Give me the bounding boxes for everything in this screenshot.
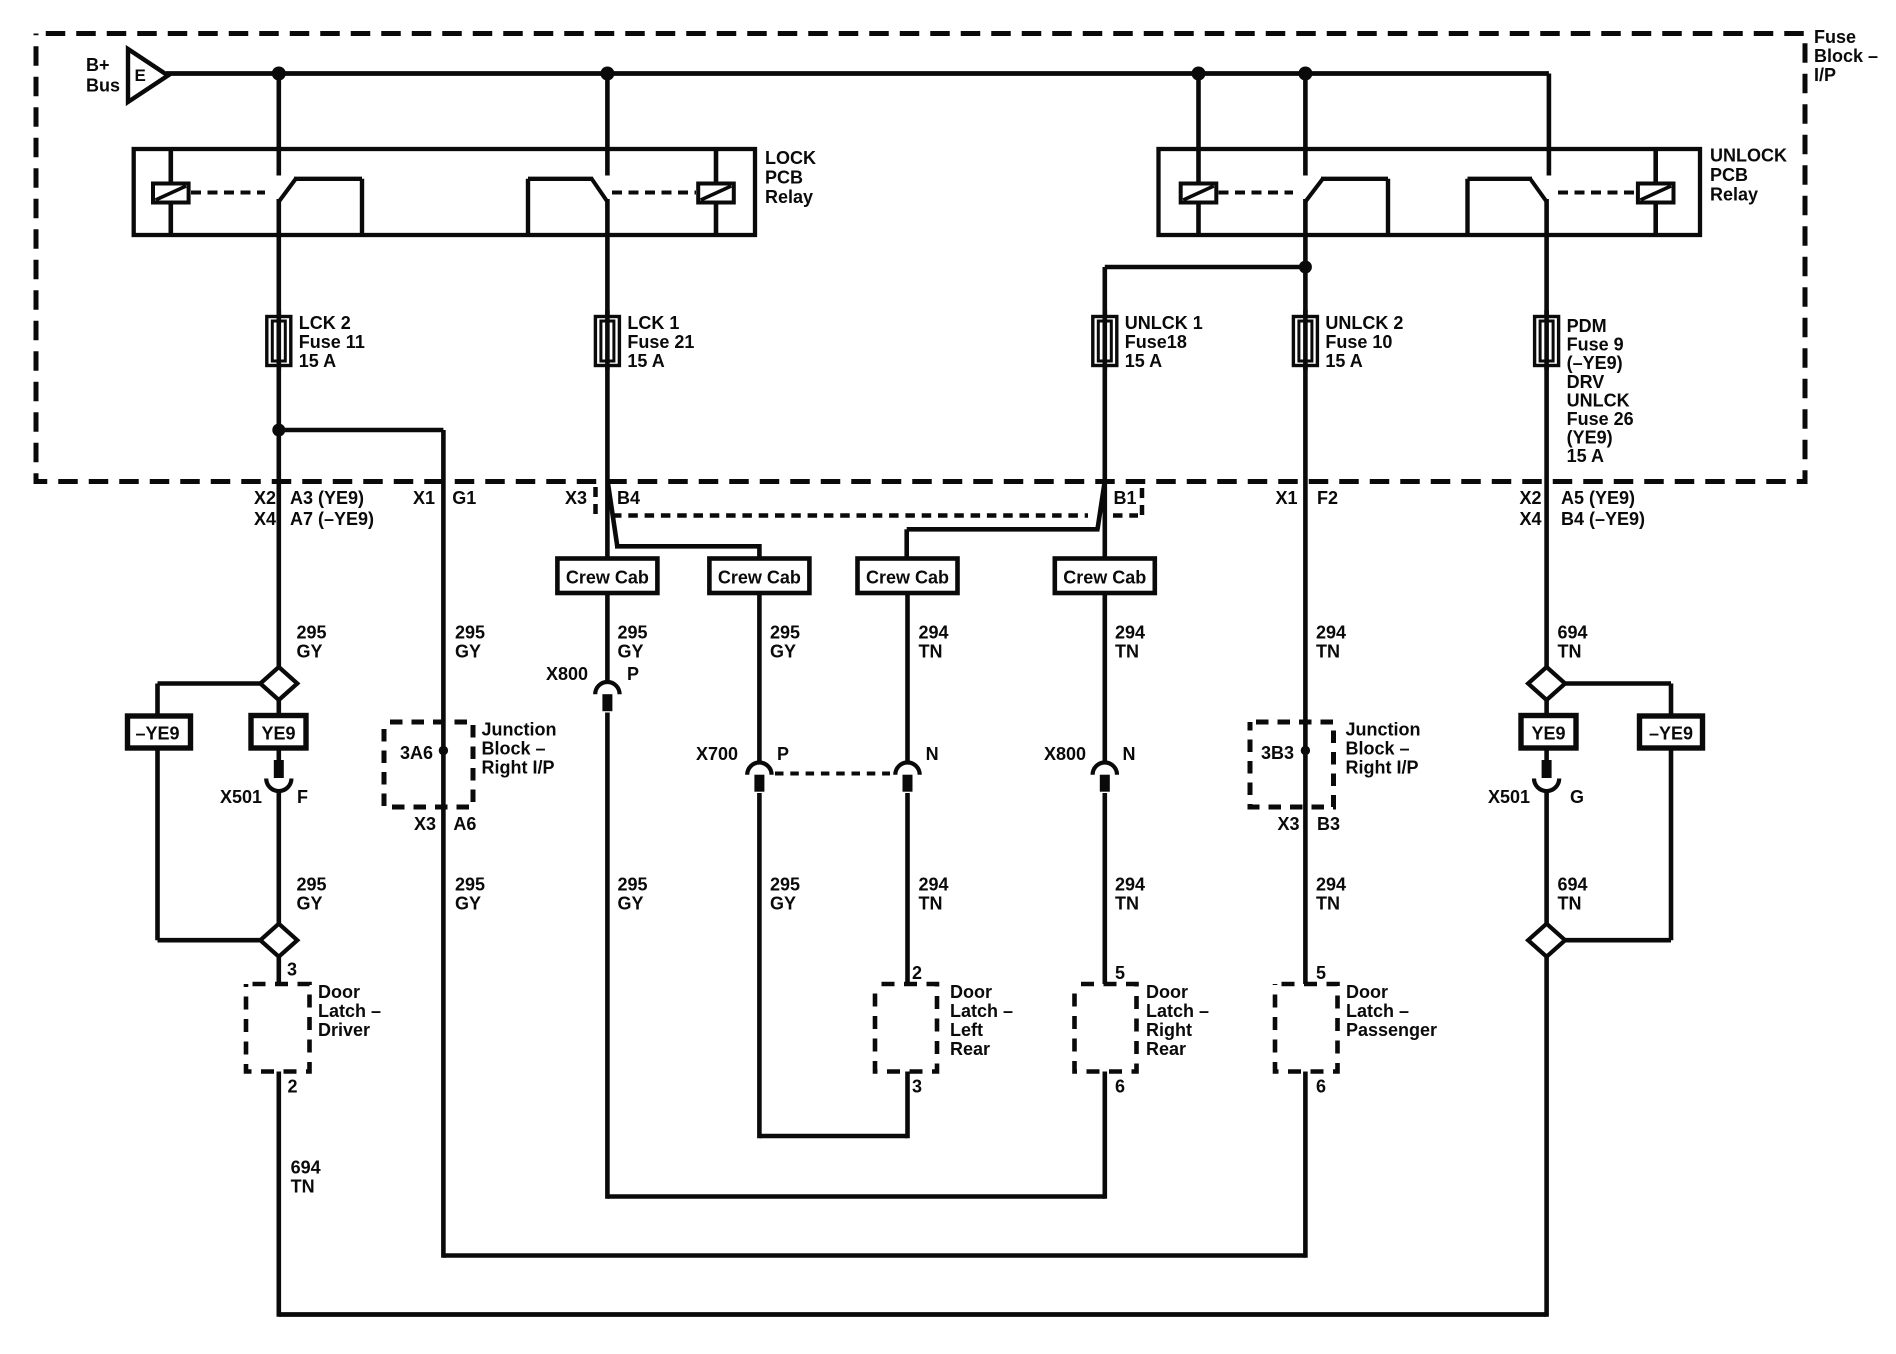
wire UNLOCK coil2 feed xyxy=(1653,149,1658,235)
svg-text:TN: TN xyxy=(1115,642,1139,662)
wire B+ bus xyxy=(166,71,1549,76)
svg-text:I/P: I/P xyxy=(1814,65,1836,85)
svg-text:694: 694 xyxy=(1558,875,1588,895)
svg-text:B4 (–YE9): B4 (–YE9) xyxy=(1561,509,1645,529)
svg-text:X501: X501 xyxy=(220,787,262,807)
relay LOCK coil1 xyxy=(153,184,189,203)
svg-text:3A6: 3A6 xyxy=(400,743,433,763)
wire S4 down to rail4 xyxy=(1544,957,1549,1317)
svg-text:X1: X1 xyxy=(1275,488,1297,508)
pin label 6 right rear xyxy=(1115,1077,1125,1097)
svg-text:294: 294 xyxy=(1316,623,1346,643)
svg-text:A5 (YE9): A5 (YE9) xyxy=(1561,488,1635,508)
splice diamond S2 xyxy=(260,924,297,957)
wire X501 G down to diamond S4 xyxy=(1544,792,1549,926)
svg-text:Fuse 10: Fuse 10 xyxy=(1325,332,1392,352)
svg-text:Junction: Junction xyxy=(482,720,557,740)
svg-text:6: 6 xyxy=(1316,1077,1326,1097)
relay LOCK switch2 arm xyxy=(528,179,607,236)
crew cab box 2 xyxy=(709,559,809,594)
crew cab box 1 xyxy=(557,559,657,594)
svg-text:15 A: 15 A xyxy=(1325,351,1362,371)
svg-text:LOCK: LOCK xyxy=(765,148,816,168)
fuse LCK 1 label xyxy=(627,313,694,371)
wire branch -YE9 left lower xyxy=(158,748,261,940)
svg-text:G: G xyxy=(1570,787,1584,807)
dashed link switch4 to UNLOCK coil2 xyxy=(1558,191,1637,195)
svg-text:TN: TN xyxy=(291,1177,315,1197)
label 3B3 xyxy=(1261,743,1294,763)
svg-text:Latch –: Latch – xyxy=(950,1001,1013,1021)
relay LOCK PCB box xyxy=(134,149,755,235)
wire branch to UNLCK1 fuse xyxy=(1105,267,1306,317)
fuse PDM label xyxy=(1567,316,1634,466)
crew cab box 4 xyxy=(1055,559,1155,594)
pin label 2 left rear xyxy=(912,963,922,983)
svg-text:GY: GY xyxy=(770,894,796,914)
relay UNLOCK switch4 arm xyxy=(1468,179,1547,236)
svg-text:GY: GY xyxy=(455,642,481,662)
wire crew cab4 to X800 N xyxy=(1103,593,1108,765)
wire branch -YE9 left upper xyxy=(158,684,261,717)
svg-text:Fuse 9: Fuse 9 xyxy=(1567,335,1624,355)
svg-text:B3: B3 xyxy=(1317,814,1340,834)
relay LOCK coil2 xyxy=(698,184,734,203)
fuse UNLCK 2 label xyxy=(1325,313,1403,371)
svg-text:Crew Cab: Crew Cab xyxy=(566,568,649,588)
svg-text:TN: TN xyxy=(1115,894,1139,914)
junction dot G1 branch xyxy=(272,424,285,437)
svg-text:Crew Cab: Crew Cab xyxy=(718,568,801,588)
svg-text:F2: F2 xyxy=(1317,488,1338,508)
wire UNLOCK coil1 feed from bus xyxy=(1196,74,1201,236)
svg-text:Door: Door xyxy=(1346,982,1388,1002)
junction dot UNLCK branch xyxy=(1299,261,1312,274)
connector X501 G xyxy=(1534,760,1559,791)
label N c5 xyxy=(926,744,939,764)
svg-text:3: 3 xyxy=(912,1077,922,1097)
splice diamond S3 xyxy=(1528,667,1565,700)
svg-text:YE9: YE9 xyxy=(261,724,295,744)
wire X800 P down to rail2 xyxy=(605,713,610,1199)
wire switch4 output to fuse PDM xyxy=(1544,199,1549,317)
svg-text:YE9: YE9 xyxy=(1531,724,1565,744)
svg-text:Door: Door xyxy=(1146,982,1188,1002)
svg-text:295: 295 xyxy=(770,623,800,643)
wire crew cab3 to X700 N xyxy=(905,593,910,765)
wire A6 down to rail3 xyxy=(441,807,446,1258)
svg-text:P: P xyxy=(777,744,789,764)
svg-text:Fuse18: Fuse18 xyxy=(1125,332,1187,352)
wire switch3 output xyxy=(1303,199,1308,317)
svg-text:15 A: 15 A xyxy=(1125,351,1162,371)
svg-text:PCB: PCB xyxy=(765,168,803,188)
box -YE9 right xyxy=(1640,716,1703,748)
wire B1 to crew cab 4 xyxy=(1103,482,1108,561)
wire label 295 GY c3 r1 xyxy=(618,623,648,662)
junction block 3A6 wire xyxy=(441,722,446,807)
svg-text:PDM: PDM xyxy=(1567,316,1607,336)
connector X800 P xyxy=(595,682,619,711)
svg-text:Latch –: Latch – xyxy=(1346,1001,1409,1021)
fuse block I/P dashed border xyxy=(36,34,1805,482)
junction dot 3A6 xyxy=(439,746,448,755)
wire switch4 input from bus xyxy=(1547,74,1552,176)
svg-text:295: 295 xyxy=(455,623,485,643)
wire label 694 TN c8 r1 xyxy=(1558,623,1588,662)
relay UNLOCK coil1 xyxy=(1181,184,1217,203)
wire switch2 input from bus xyxy=(605,74,610,176)
fuse PDM xyxy=(1535,310,1559,370)
svg-text:295: 295 xyxy=(770,875,800,895)
connector X700 P xyxy=(747,763,771,792)
door latch right rear label xyxy=(1146,982,1209,1059)
svg-text:X1: X1 xyxy=(413,488,435,508)
svg-text:TN: TN xyxy=(1558,894,1582,914)
svg-text:–YE9: –YE9 xyxy=(1649,724,1693,744)
wire B1 branch diagonal xyxy=(907,484,1105,560)
box YE9 left xyxy=(251,716,306,749)
pin label X1 F2 xyxy=(1275,488,1338,508)
pin label X3 B4 xyxy=(565,488,640,508)
label X501 G xyxy=(1488,787,1584,807)
junction block right IP label 1 xyxy=(482,720,557,778)
svg-text:295: 295 xyxy=(297,623,327,643)
wire switch3 input from bus xyxy=(1303,74,1308,176)
wire diamond to YE9 box xyxy=(276,700,281,716)
splice diamond S4 xyxy=(1528,924,1565,957)
door latch driver box xyxy=(246,984,310,1072)
svg-text:Relay: Relay xyxy=(1710,185,1758,205)
box -YE9 left xyxy=(128,716,191,748)
wire LCK2 fuse to border xyxy=(276,366,281,482)
svg-text:P: P xyxy=(627,664,639,684)
svg-text:UNLCK 1: UNLCK 1 xyxy=(1125,313,1203,333)
svg-text:X2: X2 xyxy=(1519,488,1541,508)
label X800 N xyxy=(1044,744,1136,764)
fuse LCK 2 label xyxy=(299,313,365,371)
wire label 295 GY c1 r2 xyxy=(297,875,327,914)
svg-text:TN: TN xyxy=(1316,642,1340,662)
door latch driver label xyxy=(318,982,381,1040)
door latch left rear label xyxy=(950,982,1013,1059)
B+ bus terminal E triangle xyxy=(128,49,168,102)
svg-text:X3: X3 xyxy=(565,488,587,508)
svg-text:295: 295 xyxy=(618,875,648,895)
label X700 P xyxy=(696,744,789,764)
relay LOCK label xyxy=(765,148,816,207)
svg-text:UNLOCK: UNLOCK xyxy=(1710,146,1787,166)
wire X700 N down to latch xyxy=(905,793,910,984)
svg-text:Right: Right xyxy=(1146,1020,1192,1040)
svg-text:5: 5 xyxy=(1316,963,1326,983)
wire label 294 TN c6 r1 xyxy=(1115,623,1145,662)
svg-text:X800: X800 xyxy=(1044,744,1086,764)
svg-text:UNLCK 2: UNLCK 2 xyxy=(1325,313,1403,333)
pin label 5 right rear xyxy=(1115,963,1125,983)
svg-text:Bus: Bus xyxy=(86,76,120,96)
wire G1 down to junction block xyxy=(441,482,446,723)
fuse LCK 2 xyxy=(267,310,291,370)
wire left rear pin3 to rail1 xyxy=(905,1072,910,1139)
svg-text:Driver: Driver xyxy=(318,1020,370,1040)
svg-text:Door: Door xyxy=(950,982,992,1002)
pin label 3 left rear xyxy=(912,1077,922,1097)
dashed link switch2 to LOCK coil2 xyxy=(612,191,696,195)
svg-text:Block –: Block – xyxy=(482,739,546,759)
svg-text:TN: TN xyxy=(919,894,943,914)
relay LOCK switch1 arm xyxy=(279,179,362,236)
svg-text:TN: TN xyxy=(919,642,943,662)
svg-text:Door: Door xyxy=(318,982,360,1002)
pin label X2 X4 A5 B4 xyxy=(1519,488,1645,529)
svg-text:X3: X3 xyxy=(1277,814,1299,834)
wire UNLCK2 fuse to border xyxy=(1303,366,1308,482)
svg-text:2: 2 xyxy=(912,963,922,983)
svg-text:2: 2 xyxy=(288,1077,298,1097)
svg-text:3B3: 3B3 xyxy=(1261,743,1294,763)
svg-text:GY: GY xyxy=(770,642,796,662)
svg-text:694: 694 xyxy=(1558,623,1588,643)
wire label 294 TN c7 r2 xyxy=(1316,875,1346,914)
wire switch1 input from bus xyxy=(276,74,281,176)
wire branch -YE9 right upper xyxy=(1563,684,1671,717)
svg-text:GY: GY xyxy=(618,894,644,914)
door latch passenger label xyxy=(1346,982,1437,1040)
junction dot 3B3 xyxy=(1301,746,1310,755)
fuse LCK 1 xyxy=(595,310,619,370)
wire YE9 to X501 G xyxy=(1544,748,1549,762)
svg-text:Relay: Relay xyxy=(765,187,813,207)
wire LOCK coil1 feed xyxy=(169,149,174,235)
svg-text:294: 294 xyxy=(1115,623,1145,643)
label X501 F xyxy=(220,787,308,807)
svg-text:A3 (YE9): A3 (YE9) xyxy=(290,488,364,508)
wire branch to G1 xyxy=(279,430,444,482)
svg-text:X2: X2 xyxy=(254,488,276,508)
svg-text:Fuse 26: Fuse 26 xyxy=(1567,409,1634,429)
relay UNLOCK label xyxy=(1710,146,1787,205)
svg-text:G1: G1 xyxy=(452,488,476,508)
pin label X3 A6 xyxy=(414,814,476,834)
svg-text:N: N xyxy=(926,744,939,764)
wire B3 down to latch xyxy=(1303,807,1308,984)
connector X700 N xyxy=(895,763,919,792)
wire C1 border to diamond xyxy=(276,482,281,669)
svg-text:Fuse: Fuse xyxy=(1814,27,1856,47)
wire driver pin2 down xyxy=(276,1072,281,1317)
wire label 295 GY c3 r2 xyxy=(618,875,648,914)
svg-text:GY: GY xyxy=(618,642,644,662)
svg-text:X3: X3 xyxy=(414,814,436,834)
svg-text:Block –: Block – xyxy=(1814,46,1878,66)
wire label 295 GY c4 r2 xyxy=(770,875,800,914)
svg-text:E: E xyxy=(135,66,146,85)
box YE9 right xyxy=(1521,716,1576,749)
wire rail lock rear xyxy=(759,1134,907,1139)
svg-text:15 A: 15 A xyxy=(299,351,336,371)
wire rail lock passenger xyxy=(443,1253,1305,1258)
junction block 3B3 box xyxy=(1250,722,1334,807)
svg-text:6: 6 xyxy=(1115,1077,1125,1097)
svg-text:694: 694 xyxy=(291,1158,321,1178)
wire label 294 TN c5 r2 xyxy=(919,875,949,914)
svg-text:X501: X501 xyxy=(1488,787,1530,807)
svg-text:Crew Cab: Crew Cab xyxy=(866,568,949,588)
svg-text:5: 5 xyxy=(1115,963,1125,983)
junction block 3B3 wire xyxy=(1303,722,1308,807)
svg-text:Right I/P: Right I/P xyxy=(482,758,555,778)
wire rail unlock front-rear xyxy=(607,1194,1104,1199)
wire switch2 output to fuse LCK1 xyxy=(605,199,610,317)
wire label 295 GY c1 r1 xyxy=(297,623,327,662)
door latch left rear box xyxy=(875,984,937,1072)
pin label X1 G1 xyxy=(413,488,476,508)
wire YE9 to X501 F xyxy=(276,748,281,762)
wire label 294 TN c5 r1 xyxy=(919,623,949,662)
svg-text:LCK 2: LCK 2 xyxy=(299,313,351,333)
svg-text:294: 294 xyxy=(919,623,949,643)
svg-text:Rear: Rear xyxy=(950,1039,990,1059)
wire label 295 GY c2 r2 xyxy=(455,875,485,914)
wire B4 branch diagonal xyxy=(608,484,759,560)
label B+ Bus xyxy=(86,55,120,96)
wire right rear pin6 to rail2 xyxy=(1103,1072,1108,1199)
wire B4 to crew cab 1 xyxy=(605,482,610,561)
fuse UNLCK 1 xyxy=(1093,310,1117,370)
pin label 3 driver xyxy=(287,960,297,980)
wire label 295 GY c2 r1 xyxy=(455,623,485,662)
wire label 694 TN c8 r2 xyxy=(1558,875,1588,914)
svg-text:Latch –: Latch – xyxy=(318,1001,381,1021)
door latch passenger box xyxy=(1275,984,1338,1072)
svg-text:A6: A6 xyxy=(453,814,476,834)
svg-text:15 A: 15 A xyxy=(1567,446,1604,466)
svg-text:Latch –: Latch – xyxy=(1146,1001,1209,1021)
svg-text:295: 295 xyxy=(455,875,485,895)
svg-text:GY: GY xyxy=(455,894,481,914)
wire label 294 TN c7 r1 xyxy=(1316,623,1346,662)
svg-text:Right I/P: Right I/P xyxy=(1346,758,1419,778)
svg-text:–YE9: –YE9 xyxy=(135,724,179,744)
junction dot bus UNLOCK coil xyxy=(1192,67,1206,81)
svg-text:294: 294 xyxy=(1115,875,1145,895)
svg-text:X4: X4 xyxy=(254,509,276,529)
wire LCK1 fuse to border xyxy=(605,366,610,482)
pin label 6 passenger xyxy=(1316,1077,1326,1097)
label 3A6 xyxy=(400,743,433,763)
connector X501 F xyxy=(266,760,291,791)
wire switch1 output to fuse LCK2 xyxy=(276,199,281,317)
svg-text:GY: GY xyxy=(297,894,323,914)
crew cab box 3 xyxy=(858,559,958,594)
svg-text:LCK 1: LCK 1 xyxy=(627,313,679,333)
wire PDM border to diamond xyxy=(1544,482,1549,669)
svg-text:GY: GY xyxy=(297,642,323,662)
svg-text:294: 294 xyxy=(1316,875,1346,895)
relay UNLOCK switch3 arm xyxy=(1306,179,1388,236)
svg-text:DRV: DRV xyxy=(1567,372,1605,392)
wire LOCK coil2 feed xyxy=(714,149,719,235)
svg-text:295: 295 xyxy=(297,875,327,895)
junction dot bus UNLCK switch xyxy=(1298,67,1312,81)
svg-text:Block –: Block – xyxy=(1346,739,1410,759)
svg-text:Crew Cab: Crew Cab xyxy=(1063,568,1146,588)
svg-text:Left: Left xyxy=(950,1020,983,1040)
junction block 3A6 box xyxy=(384,722,473,807)
svg-text:Fuse 21: Fuse 21 xyxy=(627,332,694,352)
wire UNLCK1 fuse to border xyxy=(1103,366,1108,482)
label Fuse Block - I/P xyxy=(1814,27,1878,85)
wire F2 down to junction block xyxy=(1303,482,1308,723)
svg-text:Passenger: Passenger xyxy=(1346,1020,1437,1040)
svg-text:TN: TN xyxy=(1558,642,1582,662)
wire branch -YE9 right lower xyxy=(1563,748,1671,940)
wire X700 P down to rail1 xyxy=(757,793,762,1138)
svg-text:B1: B1 xyxy=(1114,488,1137,508)
pin label X2 X4 A3 A7 xyxy=(254,488,374,529)
svg-text:A7 (–YE9): A7 (–YE9) xyxy=(290,509,374,529)
svg-text:X800: X800 xyxy=(546,664,588,684)
junction dot bus LCK2 xyxy=(272,67,286,81)
svg-text:3: 3 xyxy=(287,960,297,980)
pin label 2 driver xyxy=(288,1077,298,1097)
svg-text:295: 295 xyxy=(618,623,648,643)
wire passenger pin6 to rail3 xyxy=(1303,1072,1308,1258)
dashed bracket crew cab region xyxy=(596,487,1143,521)
wire PDM fuse to border xyxy=(1544,366,1549,482)
svg-text:15 A: 15 A xyxy=(627,351,664,371)
svg-text:(–YE9): (–YE9) xyxy=(1567,353,1623,373)
wire X501 F down to diamond S2 xyxy=(276,792,281,926)
svg-text:N: N xyxy=(1123,744,1136,764)
svg-text:TN: TN xyxy=(1316,894,1340,914)
svg-text:X700: X700 xyxy=(696,744,738,764)
wire label 294 TN c6 r2 xyxy=(1115,875,1145,914)
connector X800 N xyxy=(1093,763,1117,792)
relay UNLOCK coil2 xyxy=(1638,184,1674,203)
svg-text:Rear: Rear xyxy=(1146,1039,1186,1059)
label X800 P xyxy=(546,664,639,684)
wire rail 694 TN return xyxy=(279,1312,1547,1317)
junction dot bus LCK1 xyxy=(600,67,614,81)
svg-text:PCB: PCB xyxy=(1710,165,1748,185)
svg-text:(YE9): (YE9) xyxy=(1567,428,1613,448)
svg-text:Fuse 11: Fuse 11 xyxy=(299,332,365,352)
wire label 295 GY c4 r1 xyxy=(770,623,800,662)
wire diamond to YE9 right xyxy=(1544,700,1549,716)
wire crew cab2 to X700 P xyxy=(757,593,762,765)
pin label X3 B3 xyxy=(1277,814,1340,834)
wire S2 to door latch driver xyxy=(276,957,281,985)
pin label 5 passenger xyxy=(1316,963,1326,983)
dashed link LOCK coil1 to switch1 xyxy=(191,191,265,195)
fuse UNLCK 2 xyxy=(1293,310,1317,370)
wire label 694 TN c1 xyxy=(291,1158,321,1197)
door latch right rear box xyxy=(1075,984,1137,1072)
svg-text:F: F xyxy=(297,787,308,807)
fuse UNLCK 1 label xyxy=(1125,313,1203,371)
dashed link UNLOCK coil1 to switch3 xyxy=(1219,191,1294,195)
splice diamond S1 xyxy=(260,667,297,700)
junction block right IP label 2 xyxy=(1346,720,1421,778)
wire X800 N down to latch xyxy=(1103,793,1108,984)
svg-text:X4: X4 xyxy=(1519,509,1541,529)
svg-text:B+: B+ xyxy=(86,55,110,75)
svg-text:294: 294 xyxy=(919,875,949,895)
svg-text:B4: B4 xyxy=(617,488,640,508)
dashed link X700 xyxy=(775,772,890,776)
